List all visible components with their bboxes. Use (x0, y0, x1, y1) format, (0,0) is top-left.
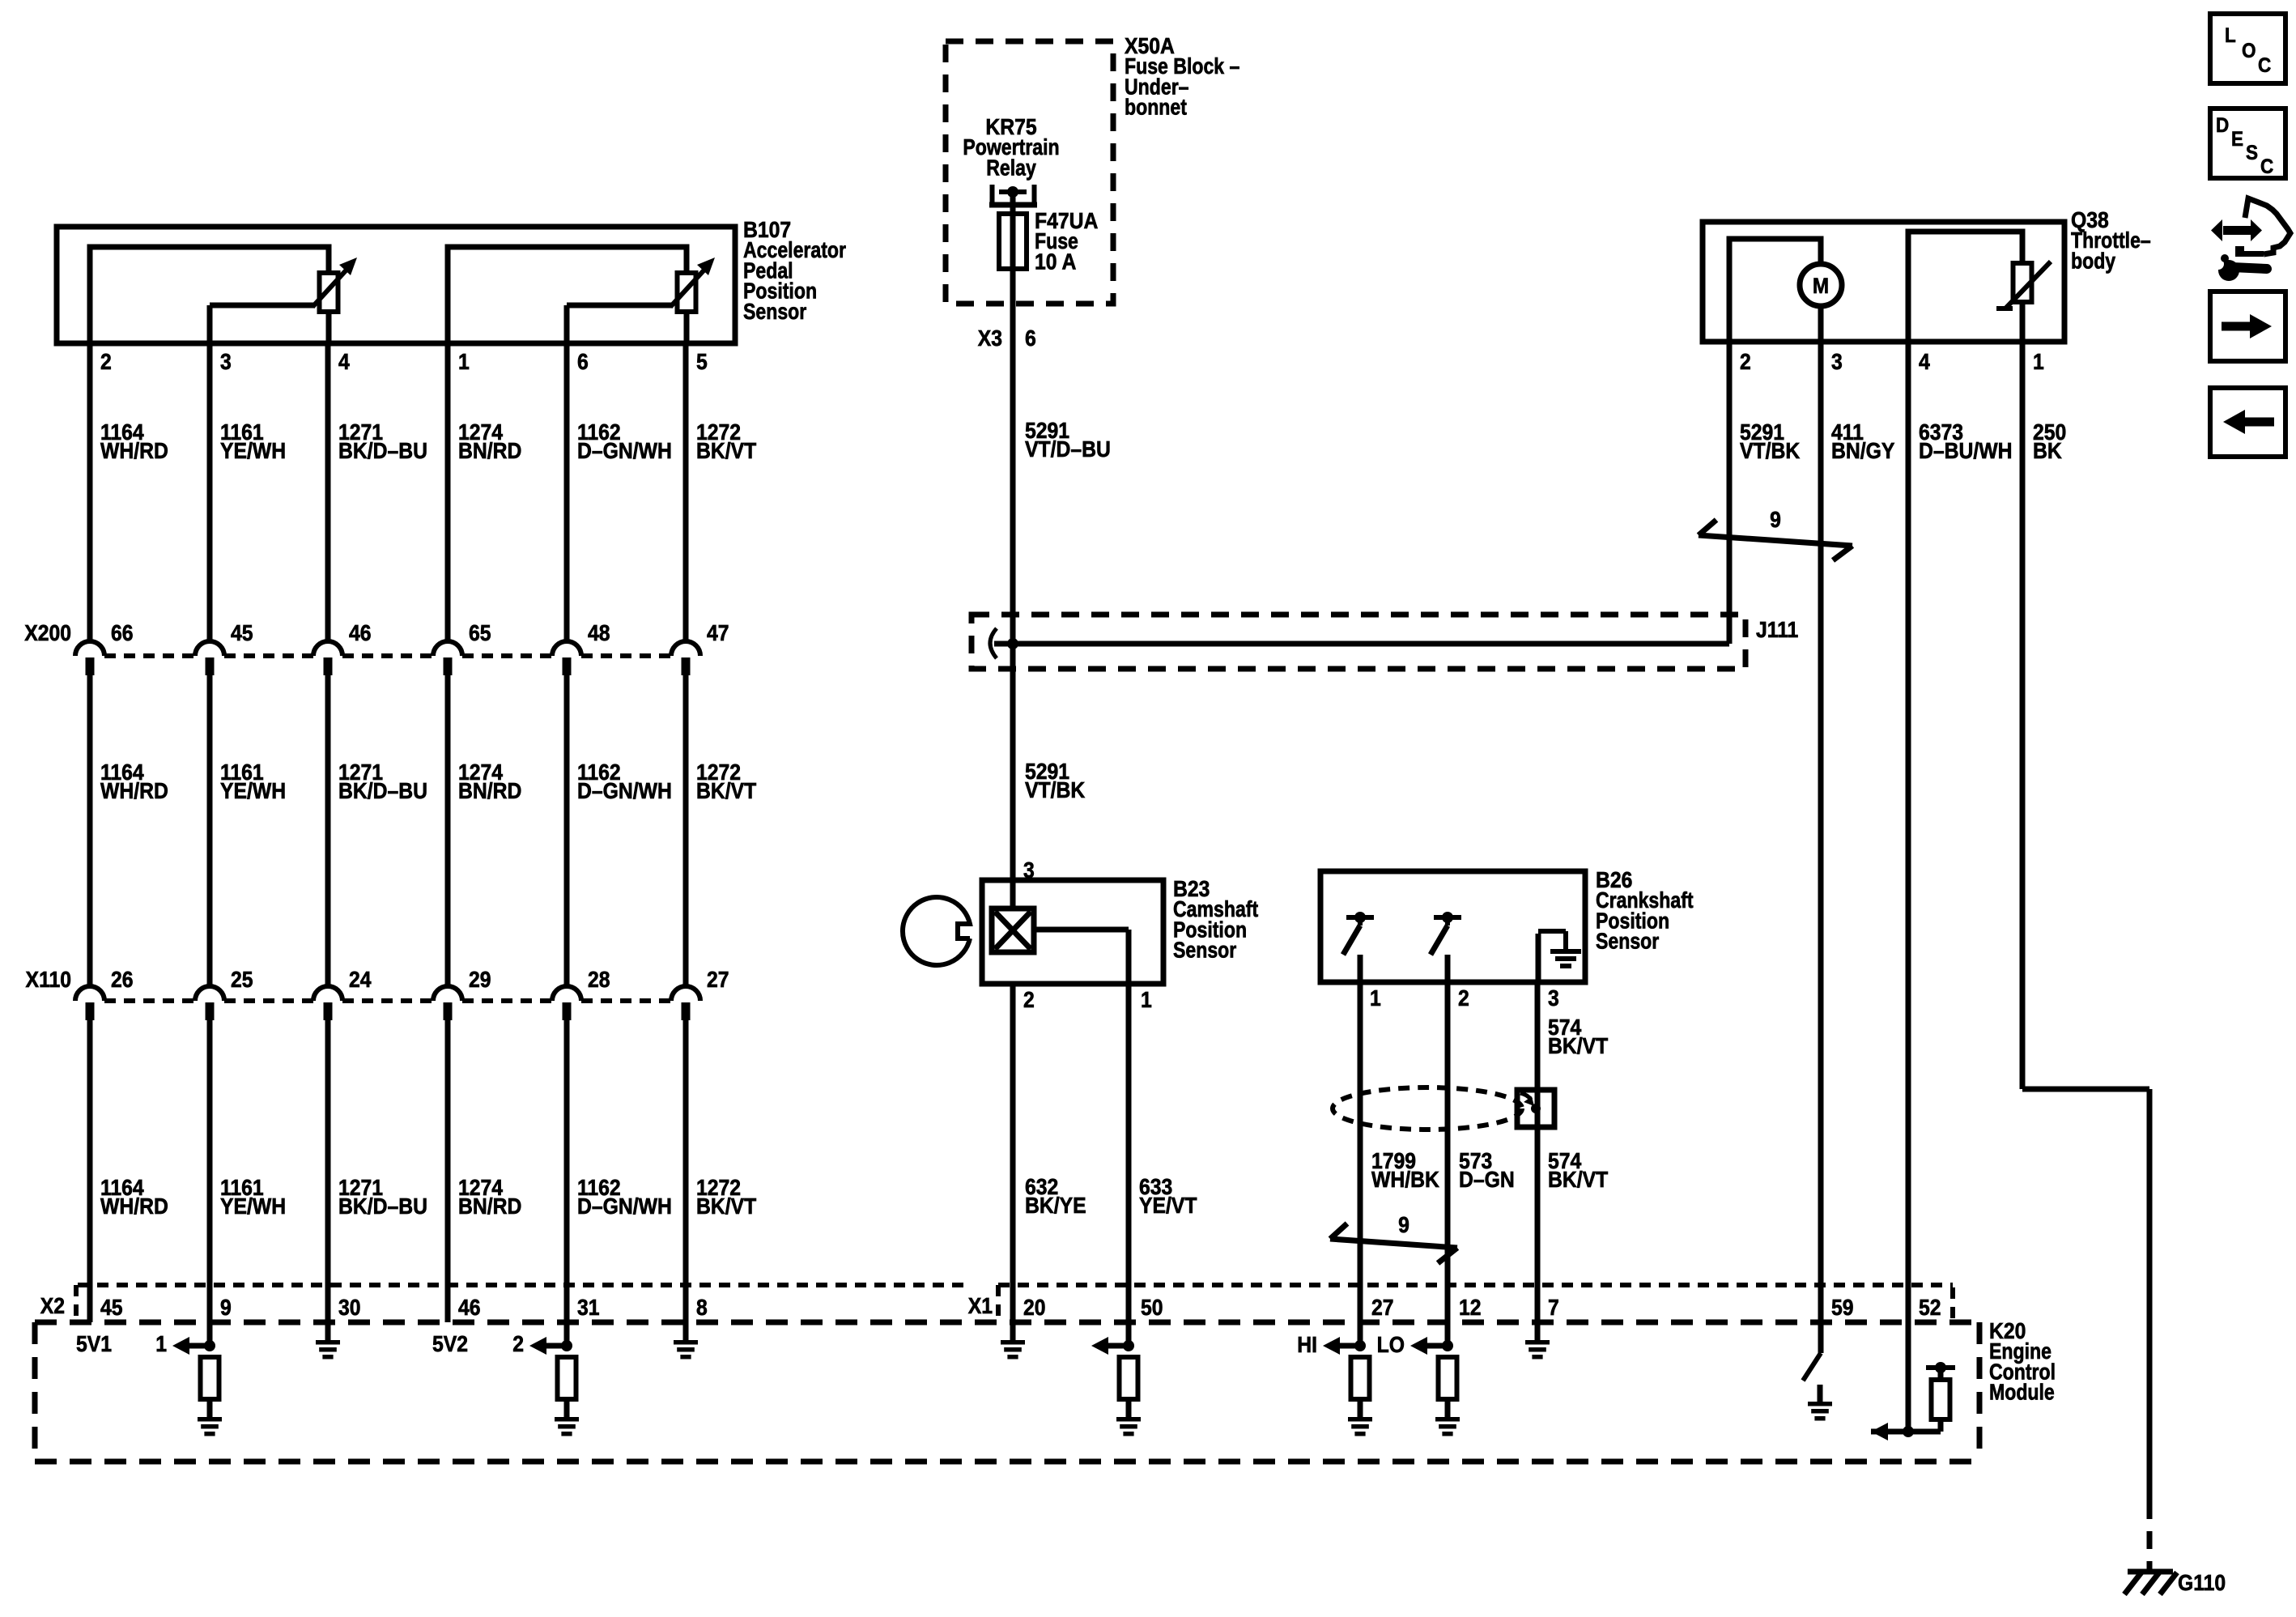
svg-text:J111: J111 (1756, 617, 1798, 643)
svg-text:YE/WH: YE/WH (220, 778, 286, 804)
svg-text:66: 66 (111, 620, 134, 646)
svg-text:BK/VT: BK/VT (1548, 1033, 1608, 1059)
svg-text:46: 46 (458, 1295, 481, 1321)
svg-text:29: 29 (469, 967, 491, 993)
svg-text:D: D (2216, 114, 2229, 137)
svg-text:LO: LO (1377, 1332, 1405, 1358)
svg-text:WH/RD: WH/RD (100, 1194, 168, 1219)
svg-text:20: 20 (1023, 1295, 1046, 1321)
svg-text:BK/VT: BK/VT (696, 778, 756, 804)
svg-text:4: 4 (338, 349, 350, 375)
svg-text:24: 24 (349, 967, 372, 993)
svg-text:27: 27 (707, 967, 729, 993)
svg-text:BN/GY: BN/GY (1831, 438, 1895, 464)
svg-text:5: 5 (696, 349, 708, 375)
svg-text:WH/RD: WH/RD (100, 438, 168, 464)
svg-text:BN/RD: BN/RD (458, 778, 521, 804)
svg-text:Module: Module (1989, 1381, 2055, 1405)
svg-text:3: 3 (1548, 985, 1559, 1011)
svg-text:9: 9 (220, 1295, 232, 1321)
svg-text:Sensor: Sensor (743, 300, 806, 324)
svg-text:G110: G110 (2178, 1570, 2226, 1596)
svg-text:8: 8 (696, 1295, 708, 1321)
svg-text:9: 9 (1398, 1212, 1409, 1238)
svg-text:BN/RD: BN/RD (458, 438, 521, 464)
svg-text:X110: X110 (26, 967, 71, 993)
svg-text:26: 26 (111, 967, 134, 993)
svg-text:X200: X200 (24, 620, 71, 646)
svg-text:X3: X3 (978, 326, 1002, 351)
svg-text:6: 6 (577, 349, 589, 375)
svg-text:1: 1 (1141, 987, 1152, 1013)
svg-text:D–BU/WH: D–BU/WH (1919, 438, 2012, 464)
svg-text:2: 2 (1740, 349, 1751, 375)
svg-text:D–GN/WH: D–GN/WH (577, 778, 672, 804)
svg-text:BK/D–BU: BK/D–BU (338, 438, 427, 464)
svg-text:VT/BK: VT/BK (1740, 438, 1800, 464)
svg-text:3: 3 (220, 349, 232, 375)
svg-text:D–GN/WH: D–GN/WH (577, 438, 672, 464)
svg-text:M: M (1813, 274, 1829, 298)
svg-text:BK/YE: BK/YE (1025, 1193, 1086, 1219)
svg-text:45: 45 (231, 620, 253, 646)
svg-text:3: 3 (1831, 349, 1843, 375)
svg-text:2: 2 (1458, 985, 1469, 1011)
svg-text:body: body (2071, 249, 2115, 274)
svg-text:10 A: 10 A (1035, 249, 1076, 274)
svg-text:YE/WH: YE/WH (220, 438, 286, 464)
svg-text:X2: X2 (40, 1293, 65, 1319)
svg-text:YE/WH: YE/WH (220, 1194, 286, 1219)
svg-text:5V2: 5V2 (432, 1331, 468, 1357)
svg-text:1: 1 (458, 349, 470, 375)
svg-text:1: 1 (155, 1331, 167, 1357)
svg-text:WH/BK: WH/BK (1371, 1167, 1439, 1193)
svg-text:12: 12 (1459, 1295, 1482, 1321)
svg-text:BK/D–BU: BK/D–BU (338, 778, 427, 804)
svg-text:Relay: Relay (986, 156, 1036, 181)
svg-text:BN/RD: BN/RD (458, 1194, 521, 1219)
svg-text:Sensor: Sensor (1596, 930, 1659, 954)
svg-text:27: 27 (1371, 1295, 1394, 1321)
svg-text:46: 46 (349, 620, 372, 646)
svg-text:L: L (2225, 24, 2236, 47)
svg-text:45: 45 (100, 1295, 123, 1321)
svg-text:VT/D–BU: VT/D–BU (1025, 436, 1111, 462)
svg-text:C: C (2258, 54, 2271, 77)
svg-text:X1: X1 (968, 1293, 993, 1319)
svg-text:5V1: 5V1 (76, 1331, 112, 1357)
svg-text:59: 59 (1831, 1295, 1854, 1321)
svg-text:47: 47 (707, 620, 729, 646)
svg-text:2: 2 (100, 349, 112, 375)
svg-text:50: 50 (1141, 1295, 1163, 1321)
svg-text:YE/VT: YE/VT (1139, 1193, 1197, 1219)
svg-text:6: 6 (1025, 326, 1036, 351)
svg-text:65: 65 (469, 620, 491, 646)
svg-text:1: 1 (2033, 349, 2044, 375)
svg-text:O: O (2242, 40, 2256, 62)
svg-text:S: S (2246, 142, 2258, 164)
svg-text:D–GN/WH: D–GN/WH (577, 1194, 672, 1219)
svg-text:BK/VT: BK/VT (696, 438, 756, 464)
svg-text:C: C (2260, 155, 2273, 178)
svg-text:7: 7 (1548, 1295, 1559, 1321)
svg-text:BK: BK (2033, 438, 2062, 464)
svg-text:D–GN: D–GN (1459, 1167, 1515, 1193)
svg-text:4: 4 (1919, 349, 1930, 375)
svg-text:E: E (2231, 128, 2243, 151)
svg-text:BK/D–BU: BK/D–BU (338, 1194, 427, 1219)
svg-text:25: 25 (231, 967, 253, 993)
svg-text:2: 2 (1023, 987, 1035, 1013)
svg-text:Sensor: Sensor (1173, 938, 1236, 963)
svg-text:28: 28 (588, 967, 610, 993)
svg-text:2: 2 (512, 1331, 524, 1357)
svg-text:bonnet: bonnet (1125, 96, 1187, 120)
svg-text:HI: HI (1297, 1332, 1317, 1358)
svg-text:9: 9 (1770, 507, 1781, 533)
svg-text:52: 52 (1919, 1295, 1941, 1321)
svg-text:31: 31 (577, 1295, 600, 1321)
svg-text:BK/VT: BK/VT (1548, 1167, 1608, 1193)
svg-text:1: 1 (1370, 985, 1381, 1011)
svg-text:WH/RD: WH/RD (100, 778, 168, 804)
svg-text:48: 48 (588, 620, 610, 646)
svg-text:VT/BK: VT/BK (1025, 777, 1085, 803)
svg-text:30: 30 (338, 1295, 361, 1321)
svg-text:BK/VT: BK/VT (696, 1194, 756, 1219)
